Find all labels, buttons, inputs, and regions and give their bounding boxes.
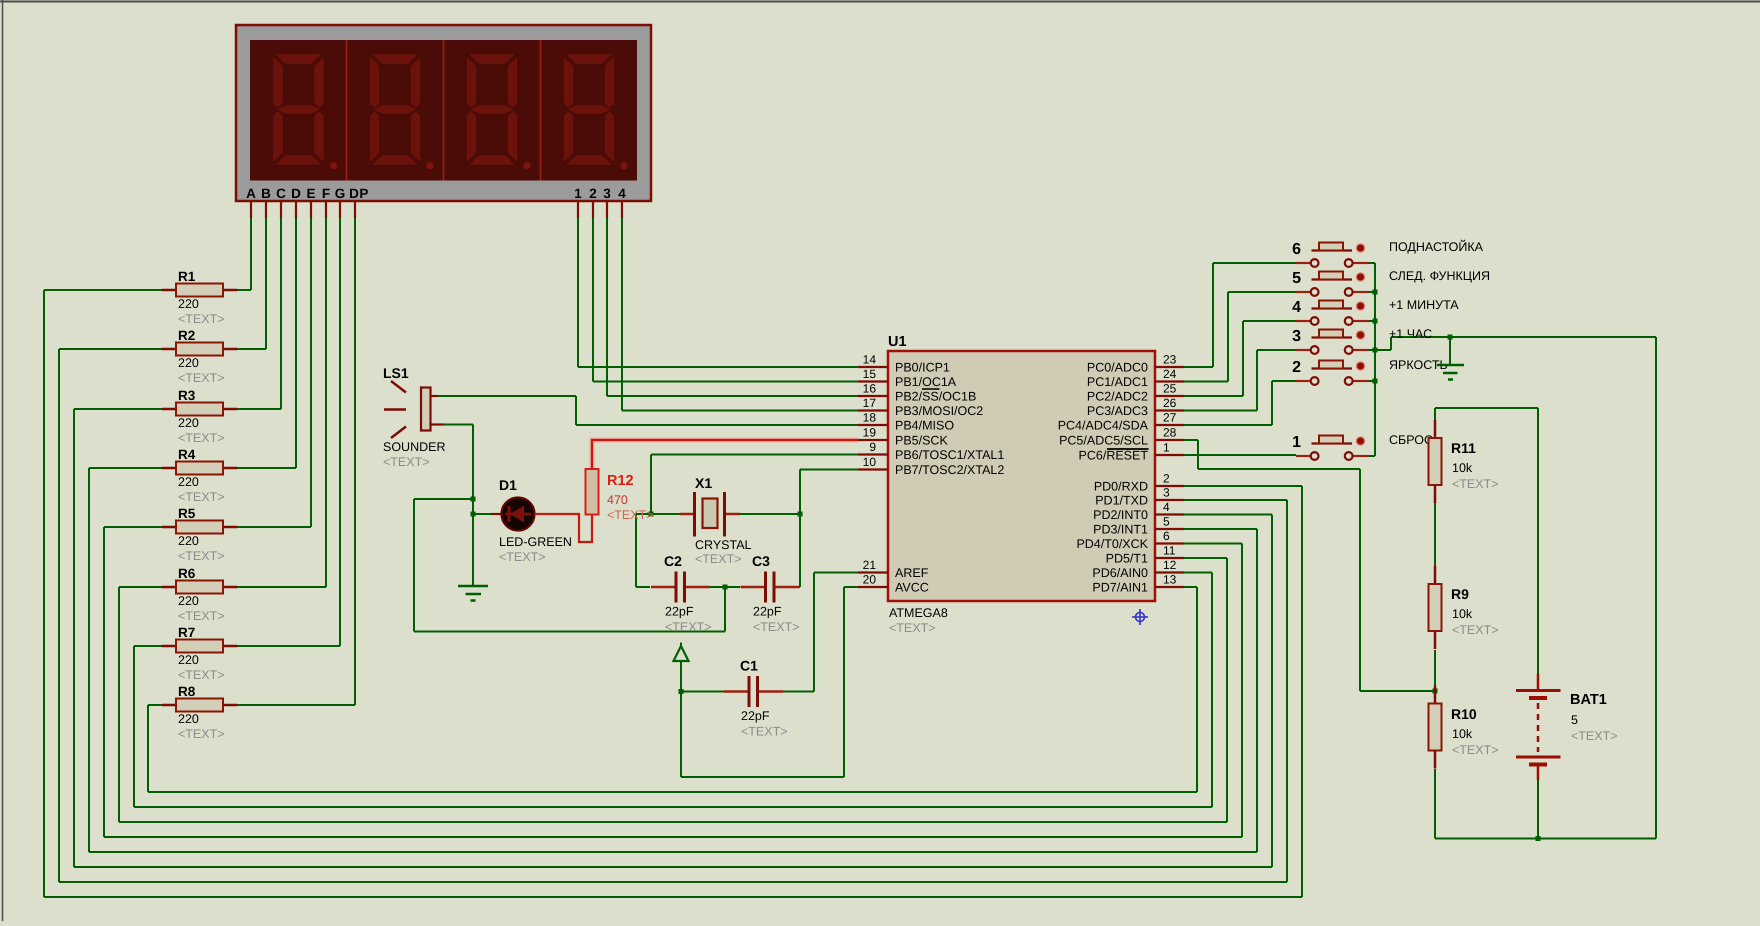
svg-text:22pF: 22pF — [753, 605, 782, 619]
svg-text:PD4/T0/XCK: PD4/T0/XCK — [1076, 537, 1148, 551]
push button 6 (ПОДНАСТОЙКА) — [1292, 239, 1484, 267]
wire — [724, 587, 726, 632]
svg-text:20: 20 — [863, 573, 877, 587]
svg-text:F: F — [322, 186, 330, 201]
push button 3 (+1 ЧАС) — [1292, 327, 1432, 354]
wire R7 right — [237, 645, 340, 647]
wire left vertical — [43, 290, 45, 897]
wire to ground — [472, 425, 474, 586]
svg-text:220: 220 — [178, 712, 199, 726]
svg-text:PC4/ADC4/SDA: PC4/ADC4/SDA — [1058, 419, 1149, 433]
wire R6 right — [237, 586, 326, 588]
capacitor C3 — [741, 553, 800, 634]
wire R7 left — [134, 645, 162, 647]
wire — [636, 513, 680, 515]
wire R1 right — [237, 289, 251, 291]
U1 pin 20 AVCC — [858, 573, 929, 595]
U1 pin 15 PB1/OC1A — [858, 367, 957, 389]
svg-text:19: 19 — [863, 426, 877, 440]
wire to display segment pin — [250, 218, 252, 290]
wire to display segment pin — [265, 218, 267, 349]
svg-text:R1: R1 — [178, 269, 196, 284]
svg-text:R11: R11 — [1451, 440, 1476, 456]
wire to U1 PD pin — [1184, 586, 1197, 588]
U1 pin 10 PB7/TOSC2/XTAL2 — [858, 455, 1004, 477]
wire RESET to button 1 — [1184, 454, 1296, 456]
overline RESET (PC6) — [1107, 448, 1149, 450]
svg-text:ПОДНАСТОЙКА: ПОДНАСТОЙКА — [1389, 239, 1484, 254]
wire to ground — [1449, 337, 1451, 364]
svg-text:SOUNDER: SOUNDER — [383, 440, 446, 454]
junction — [723, 585, 728, 590]
svg-text:+1 ЧАС: +1 ЧАС — [1389, 327, 1432, 341]
svg-text:PC0/ADC0: PC0/ADC0 — [1087, 361, 1148, 375]
wire — [575, 396, 577, 425]
display digit 1 — [273, 54, 338, 170]
svg-text:C1: C1 — [740, 658, 758, 674]
svg-text:<TEXT>: <TEXT> — [178, 312, 225, 326]
wire to display segment pin — [325, 218, 327, 587]
wire R1 left — [44, 289, 162, 291]
wire right vertical — [1286, 500, 1288, 882]
wire to PB4 — [576, 424, 858, 426]
wire right vertical — [1196, 587, 1198, 792]
svg-text:12: 12 — [1163, 558, 1177, 572]
svg-text:13: 13 — [1163, 573, 1177, 587]
wire R5 right — [237, 526, 311, 528]
svg-text:PB4/MISO: PB4/MISO — [895, 419, 954, 433]
svg-text:5: 5 — [1163, 515, 1170, 529]
wire button to bus — [1369, 320, 1376, 322]
wire button to bus — [1369, 262, 1376, 264]
resistor R11 — [1429, 420, 1499, 503]
svg-text:PD3/INT1: PD3/INT1 — [1093, 523, 1148, 537]
U1 pin 16 PB2/SS/OC1B — [858, 382, 976, 404]
svg-text:PC3/ADC3: PC3/ADC3 — [1087, 404, 1148, 418]
sheet border top — [0, 1, 1760, 3]
wire bottom bus — [104, 836, 1242, 838]
svg-text:9: 9 — [869, 440, 876, 454]
svg-text:<TEXT>: <TEXT> — [1452, 623, 1499, 637]
wire to D1 — [473, 513, 491, 515]
wire — [650, 455, 652, 515]
U1 pin 6 PD4/T0/XCK — [1076, 529, 1184, 551]
wire to U1 PB pin — [622, 410, 858, 412]
wire PC3 to button — [1184, 410, 1257, 412]
display digit 2 — [369, 54, 434, 170]
wire to display segment pin — [339, 218, 341, 646]
U1 pin 19 PB5/SCK — [858, 426, 948, 448]
wire — [1390, 337, 1392, 350]
svg-text:<TEXT>: <TEXT> — [178, 431, 225, 445]
wire right vertical — [1226, 558, 1228, 822]
wire right vertical — [1241, 544, 1243, 838]
wire left vertical — [88, 468, 90, 852]
wire button to bus — [1369, 455, 1376, 457]
display digit 3 — [466, 54, 531, 170]
wire button bus — [1374, 263, 1376, 456]
wire right vertical — [1271, 515, 1273, 868]
svg-text:22pF: 22pF — [665, 605, 694, 619]
wire R3 left — [74, 408, 162, 410]
svg-text:<TEXT>: <TEXT> — [741, 725, 788, 739]
U1 pin 17 PB3/MOSI/OC2 — [858, 396, 983, 418]
wire left vertical — [118, 587, 120, 822]
svg-text:<TEXT>: <TEXT> — [607, 508, 654, 522]
wire C1 right — [760, 691, 783, 693]
svg-text:D1: D1 — [499, 477, 517, 493]
wire to C2 — [636, 586, 650, 588]
junction — [1373, 290, 1378, 295]
wire C2-C3 — [709, 586, 740, 588]
svg-text:14: 14 — [863, 353, 877, 367]
svg-text:X1: X1 — [695, 475, 712, 491]
U1 pin 18 PB4/MISO — [858, 411, 954, 433]
ground (buttons) — [1437, 365, 1464, 380]
U1 pin 4 PD2/INT0 — [1093, 500, 1184, 522]
svg-text:3: 3 — [1292, 328, 1301, 345]
U1 pin 13 PD7/AIN1 — [1092, 573, 1184, 595]
svg-text:PC1/ADC1: PC1/ADC1 — [1087, 375, 1148, 389]
capacitor C1 — [724, 658, 788, 739]
svg-text:18: 18 — [863, 411, 877, 425]
wire to button — [1243, 320, 1296, 322]
wire battery top — [1537, 408, 1539, 674]
power symbol (VCC arrow) — [674, 643, 689, 662]
svg-text:LED-GREEN: LED-GREEN — [499, 535, 572, 549]
svg-text:21: 21 — [863, 558, 877, 572]
wire to button — [1257, 349, 1296, 351]
svg-text:BAT1: BAT1 — [1570, 692, 1607, 708]
U1 pin 1 PC6/RESET — [1079, 441, 1184, 463]
svg-text:220: 220 — [178, 653, 199, 667]
svg-text:PC6/RESET: PC6/RESET — [1079, 449, 1149, 463]
svg-text:10: 10 — [863, 455, 877, 469]
display digit 4 — [563, 54, 628, 170]
svg-text:PB0/ICP1: PB0/ICP1 — [895, 361, 950, 375]
resistor R3 — [162, 388, 237, 445]
svg-text:AVCC: AVCC — [895, 581, 929, 595]
display pins — [251, 201, 622, 218]
wire R8 right — [237, 704, 355, 706]
wire to U1 PD pin — [1184, 557, 1227, 559]
wire — [1375, 349, 1391, 351]
wire — [414, 631, 725, 633]
U1 pin 5 PD3/INT1 — [1093, 515, 1184, 537]
wire right vertical — [1301, 486, 1303, 897]
svg-text:10k: 10k — [1452, 727, 1473, 741]
svg-text:15: 15 — [863, 367, 877, 381]
wire — [799, 470, 801, 588]
wire bottom bus — [119, 821, 1227, 823]
svg-text:5: 5 — [1571, 713, 1578, 727]
svg-text:<TEXT>: <TEXT> — [499, 550, 546, 564]
battery BAT1 — [1516, 674, 1618, 780]
U1 pin 2 PD0/RXD — [1094, 472, 1184, 494]
svg-text:220: 220 — [178, 475, 199, 489]
wire to U1 PD pin — [1184, 543, 1242, 545]
svg-text:СЛЕД. ФУНКЦИЯ: СЛЕД. ФУНКЦИЯ — [1389, 269, 1490, 283]
wire left vertical — [133, 646, 135, 807]
junction — [1373, 319, 1378, 324]
wire PC1 to button — [1184, 381, 1228, 383]
wire display digit 4 — [621, 218, 623, 411]
wire left vertical — [58, 349, 60, 882]
wire LS1 bottom — [444, 424, 473, 426]
wire X1 right — [740, 513, 800, 515]
wire to U1 PB pin — [578, 366, 858, 368]
svg-text:B: B — [261, 186, 271, 201]
svg-text:PD5/T1: PD5/T1 — [1106, 552, 1148, 566]
svg-text:ATMEGA8: ATMEGA8 — [889, 606, 948, 620]
svg-text:G: G — [335, 186, 346, 201]
wire R12 to PB5/SCK (red net, highlighted) — [592, 440, 858, 469]
wire PC0 to button — [1184, 366, 1213, 368]
svg-text:<TEXT>: <TEXT> — [695, 552, 742, 566]
svg-text:<TEXT>: <TEXT> — [178, 727, 225, 741]
svg-text:<TEXT>: <TEXT> — [753, 620, 800, 634]
wire — [681, 776, 844, 778]
svg-text:PD0/RXD: PD0/RXD — [1094, 480, 1148, 494]
wire R6 left — [119, 586, 162, 588]
wire to C1 — [681, 691, 725, 693]
wire to right rail — [1391, 336, 1656, 338]
wire right vertical — [1256, 529, 1258, 852]
push button 4 (+1 МИНУТА) — [1292, 298, 1459, 325]
svg-text:U1: U1 — [888, 334, 907, 350]
svg-text:PD1/TXD: PD1/TXD — [1095, 494, 1148, 508]
wire button to bus — [1369, 349, 1376, 351]
wire display digit 1 — [577, 218, 579, 367]
junction — [1536, 836, 1541, 841]
wire vertical — [1271, 381, 1273, 425]
svg-text:AREF: AREF — [895, 566, 929, 580]
wire R8 left — [148, 704, 162, 706]
wire left vertical — [103, 527, 105, 837]
svg-text:R10: R10 — [1451, 706, 1477, 722]
svg-text:R7: R7 — [178, 625, 195, 640]
wire vertical — [1227, 292, 1229, 382]
junction — [649, 512, 654, 517]
wire to button — [1272, 380, 1296, 382]
svg-text:<TEXT>: <TEXT> — [178, 549, 225, 563]
wire to U1 PD pin — [1184, 528, 1257, 530]
U1 pin 21 AREF — [858, 558, 929, 580]
svg-text:PD7/AIN1: PD7/AIN1 — [1092, 581, 1148, 595]
svg-text:D: D — [291, 186, 301, 201]
U1 pin 27 PC4/ADC4/SDA — [1058, 411, 1184, 433]
svg-text:R5: R5 — [178, 506, 196, 521]
svg-text:PB3/MOSI/OC2: PB3/MOSI/OC2 — [895, 404, 983, 418]
svg-text:E: E — [306, 186, 315, 201]
svg-text:СБРОС: СБРОС — [1389, 433, 1433, 447]
svg-text:1: 1 — [1292, 434, 1301, 451]
svg-text:4: 4 — [1292, 299, 1301, 316]
U1 pin 9 PB6/TOSC1/XTAL1 — [858, 440, 1004, 462]
svg-text:2: 2 — [589, 186, 597, 201]
svg-text:R2: R2 — [178, 328, 195, 343]
U1 pin 28 PC5/ADC5/SCL — [1059, 426, 1184, 448]
wire — [413, 499, 415, 632]
push button 5 (СЛЕД. ФУНКЦИЯ) — [1292, 269, 1490, 296]
junction — [471, 512, 476, 517]
wire — [783, 691, 814, 693]
resistor R1 — [162, 269, 237, 326]
display segment labels — [246, 186, 626, 201]
push button 1 (СБРОС) — [1292, 433, 1433, 460]
svg-text:PD6/AIN0: PD6/AIN0 — [1092, 566, 1148, 580]
wire — [843, 587, 845, 777]
svg-text:3: 3 — [1163, 486, 1170, 500]
svg-text:<TEXT>: <TEXT> — [178, 490, 225, 504]
svg-text:470: 470 — [607, 493, 628, 507]
resistor R2 — [162, 328, 237, 385]
svg-text:C: C — [276, 186, 286, 201]
sheet border left — [2, 0, 4, 921]
wire R2 right — [237, 348, 266, 350]
junction — [679, 689, 684, 694]
svg-text:1: 1 — [1163, 441, 1170, 455]
svg-text:PB7/TOSC2/XTAL2: PB7/TOSC2/XTAL2 — [895, 463, 1004, 477]
svg-text:25: 25 — [1163, 382, 1177, 396]
wire to U1 PD pin — [1184, 485, 1302, 487]
junction — [1433, 689, 1438, 694]
svg-text:R12: R12 — [607, 473, 634, 489]
wire bottom bus — [59, 881, 1287, 883]
svg-text:6: 6 — [1163, 529, 1170, 543]
svg-text:27: 27 — [1163, 411, 1177, 425]
wire — [414, 498, 473, 500]
svg-text:<TEXT>: <TEXT> — [383, 455, 430, 469]
wire to U1 PD pin — [1184, 499, 1287, 501]
svg-text:22pF: 22pF — [741, 709, 770, 723]
wire display digit 3 — [606, 218, 608, 396]
wire R3 right — [237, 408, 281, 410]
svg-text:PB5/SCK: PB5/SCK — [895, 434, 948, 448]
wire to U1 PB pin — [593, 381, 858, 383]
svg-text:28: 28 — [1163, 426, 1177, 440]
svg-text:PC2/ADC2: PC2/ADC2 — [1087, 390, 1148, 404]
svg-text:<TEXT>: <TEXT> — [665, 620, 712, 634]
svg-text:4: 4 — [618, 186, 626, 201]
wire C3 right — [776, 586, 801, 588]
U1 pin 25 PC2/ADC2 — [1087, 382, 1184, 404]
svg-text:R4: R4 — [178, 447, 196, 462]
svg-text:<TEXT>: <TEXT> — [178, 609, 225, 623]
wire bottom bus — [74, 866, 1272, 868]
wire to display segment pin — [295, 218, 297, 468]
wire bottom bus — [134, 806, 1212, 808]
svg-text:17: 17 — [863, 396, 877, 410]
svg-text:<TEXT>: <TEXT> — [178, 668, 225, 682]
U1 pin 23 PC0/ADC0 — [1087, 353, 1184, 375]
svg-text:CRYSTAL: CRYSTAL — [695, 538, 752, 552]
svg-text:<TEXT>: <TEXT> — [889, 621, 936, 635]
wire bottom rail — [1435, 838, 1656, 840]
svg-text:+1 МИНУТА: +1 МИНУТА — [1389, 298, 1459, 312]
wire PC5/ADC5 — [1184, 439, 1198, 441]
LED D1 — [491, 477, 572, 564]
svg-text:220: 220 — [178, 297, 199, 311]
wire bottom bus — [148, 791, 1197, 793]
svg-text:220: 220 — [178, 416, 199, 430]
wire to display segment pin — [354, 218, 356, 705]
wire battery bottom — [1537, 780, 1539, 839]
svg-text:26: 26 — [1163, 396, 1177, 410]
wire to U1 PD pin — [1184, 572, 1212, 574]
svg-text:220: 220 — [178, 594, 199, 608]
svg-text:3: 3 — [603, 186, 611, 201]
wire top rail — [1435, 407, 1538, 409]
wire LS1 top — [438, 395, 576, 397]
wire right vertical — [1211, 573, 1213, 808]
svg-text:6: 6 — [1292, 241, 1301, 258]
wire — [635, 514, 637, 587]
svg-text:10k: 10k — [1452, 461, 1473, 475]
svg-text:4: 4 — [1163, 500, 1170, 514]
wire PC2 to button — [1184, 395, 1243, 397]
svg-text:11: 11 — [1163, 544, 1176, 558]
wire D1 to R12 (red net) — [535, 514, 593, 542]
U1 pin 24 PC1/ADC1 — [1087, 367, 1184, 389]
MCU U1 ATMEGA8 — [888, 334, 1155, 635]
svg-text:220: 220 — [178, 534, 199, 548]
wire to PB7/XTAL2 — [800, 469, 858, 471]
7-segment display bezel — [236, 25, 651, 201]
ground (LS1/D1) — [458, 586, 488, 601]
wire to U1 PD pin — [1184, 514, 1272, 516]
wire to button — [1228, 291, 1296, 293]
wire bottom bus — [89, 851, 1257, 853]
svg-text:PB6/TOSC1/XTAL1: PB6/TOSC1/XTAL1 — [895, 448, 1004, 462]
U1 pin 26 PC3/ADC3 — [1087, 396, 1184, 418]
svg-text:2: 2 — [1163, 472, 1170, 486]
wire R4 right — [237, 467, 296, 469]
svg-text:5: 5 — [1292, 270, 1301, 287]
wire vertical — [1212, 263, 1214, 367]
svg-text:<TEXT>: <TEXT> — [178, 371, 225, 385]
wire button to bus — [1369, 291, 1376, 293]
origin marker — [1132, 609, 1148, 625]
svg-text:PC5/ADC5/SCL: PC5/ADC5/SCL — [1059, 434, 1148, 448]
svg-text:DP: DP — [349, 186, 369, 201]
wire to display segment pin — [310, 218, 312, 527]
wire PB6/XTAL1 — [651, 454, 858, 456]
resistor R4 — [162, 447, 237, 504]
wire PC4 to button — [1184, 424, 1272, 426]
svg-text:C2: C2 — [664, 553, 682, 569]
wire button to bus — [1369, 380, 1376, 382]
wire to AREF — [814, 572, 858, 574]
wire R9-R10 — [1434, 650, 1436, 691]
junction — [1373, 348, 1378, 353]
wire to display segment pin — [280, 218, 282, 409]
wire to U1 PB pin — [607, 395, 858, 397]
U1 pin 11 PD5/T1 — [1106, 544, 1184, 566]
resistor R5 — [162, 506, 237, 563]
U1 pin 14 PB0/ICP1 — [858, 353, 950, 375]
svg-text:A: A — [246, 186, 256, 201]
svg-text:R6: R6 — [178, 566, 196, 581]
svg-text:C3: C3 — [752, 553, 770, 569]
svg-text:PB1/OC1A: PB1/OC1A — [895, 375, 957, 389]
wire display digit 2 — [592, 218, 594, 382]
resistor R10 — [1429, 686, 1499, 769]
wire VCC stem — [680, 661, 682, 692]
wire to divider — [1360, 690, 1435, 692]
svg-text:10k: 10k — [1452, 607, 1473, 621]
resistor R7 — [162, 625, 237, 682]
